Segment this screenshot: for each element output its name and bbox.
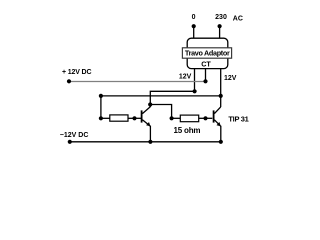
node Q1 base <box>132 116 136 120</box>
svg-text:+ 12V DC: + 12V DC <box>62 69 91 76</box>
node terminal 230 <box>218 24 222 28</box>
svg-text:12V: 12V <box>179 73 192 80</box>
svg-text:CT: CT <box>201 59 211 68</box>
node R2 input <box>170 116 174 120</box>
transistor Q1 emitter arrow <box>146 122 150 126</box>
wire transformer secondary left 12V down <box>194 68 196 91</box>
node R1 input corner <box>99 116 103 120</box>
wire Q1 collector branch to R2 <box>150 105 171 119</box>
node -12V DC terminal <box>68 140 72 144</box>
node junction 12V-left wire <box>193 89 197 93</box>
wire terminal-230 to transformer top <box>219 26 221 38</box>
node top rail left corner <box>99 94 103 98</box>
transformer T1 name plate <box>182 48 231 58</box>
resistor R1 <box>110 115 128 121</box>
node CT junction <box>203 79 207 83</box>
svg-text:−12V DC: −12V DC <box>60 132 89 139</box>
node terminal 0 <box>192 24 196 28</box>
wire top-rail left corner down to R1 <box>100 96 102 118</box>
wire top rail <box>101 95 221 97</box>
node TIP31 base <box>203 116 207 120</box>
wire terminal-0 to transformer top <box>193 26 195 38</box>
wire TIP31 emitter down <box>220 126 222 142</box>
transistor Q1 base bar <box>141 110 143 122</box>
transistor Q1 emitter lead <box>142 120 150 127</box>
node +12V DC terminal <box>67 79 71 83</box>
svg-text:12V: 12V <box>224 75 237 82</box>
node TIP31 emitter junction <box>219 140 223 144</box>
wire R2 to TIP31 base <box>199 117 213 119</box>
svg-text:0: 0 <box>192 14 196 21</box>
node Q1 collector junction <box>148 102 152 106</box>
transistor Q2 emitter lead <box>214 120 220 127</box>
wire to R2 <box>172 117 181 119</box>
svg-text:230: 230 <box>215 14 227 21</box>
transistor Q1 <box>142 107 151 127</box>
wire to R1 <box>101 117 110 119</box>
node Q1 emitter junction <box>148 140 152 144</box>
transistor Q2 collector lead <box>214 107 220 114</box>
svg-text:AC: AC <box>233 16 243 23</box>
wire Q1 emitter down <box>149 126 151 142</box>
transformer T1 body <box>187 38 228 68</box>
resistor R2 15 ohm <box>180 115 198 122</box>
node TIP31 collector junction <box>219 94 223 98</box>
wire transformer CT down <box>205 68 207 81</box>
transistor Q1 collector lead <box>142 107 150 114</box>
transistor Q2 TIP31 <box>214 107 221 126</box>
svg-text:Travo Adaptor: Travo Adaptor <box>185 49 230 58</box>
wire 12V-left to Q1 collector (upper jog) <box>150 91 194 107</box>
wire transformer secondary right 12V down (TIP31 collector) <box>220 68 222 107</box>
svg-text:TIP 31: TIP 31 <box>228 114 248 123</box>
wire -12V DC bottom rail <box>70 141 221 143</box>
svg-text:15 ohm: 15 ohm <box>173 126 200 135</box>
transistor Q2 base bar <box>213 110 215 122</box>
transistor Q2 emitter arrow <box>217 122 221 126</box>
wire +12V DC rail (gray) <box>69 81 206 83</box>
wire R1 to Q1 base <box>128 117 141 119</box>
